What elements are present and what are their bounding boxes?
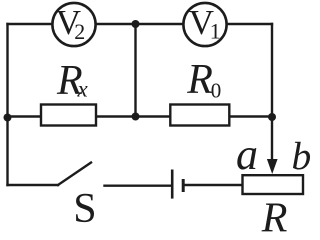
resistor Rx <box>41 105 96 126</box>
svg-text:b: b <box>292 134 312 178</box>
svg-text:2: 2 <box>74 19 85 44</box>
label R0 <box>186 57 221 103</box>
junction dot right <box>268 113 276 121</box>
svg-text:S: S <box>73 186 96 232</box>
wire middle row right <box>229 115 273 117</box>
wire top left segment <box>8 23 54 25</box>
wire bottom left <box>8 184 59 186</box>
label Rx <box>56 58 89 104</box>
svg-text:R: R <box>186 57 213 103</box>
svg-text:R: R <box>261 196 288 235</box>
wire left vertical <box>6 24 8 185</box>
svg-text:x: x <box>77 77 89 102</box>
svg-text:1: 1 <box>210 18 221 43</box>
junction dot left <box>4 114 12 122</box>
wire middle vertical <box>134 24 136 117</box>
voltmeter V1 <box>183 3 226 46</box>
rheostat R <box>243 175 304 194</box>
voltmeter V2 <box>52 3 95 46</box>
wire right vertical <box>271 24 273 162</box>
svg-text:a: a <box>236 130 258 179</box>
wire switch contact to battery <box>105 184 172 186</box>
svg-text:0: 0 <box>211 79 222 103</box>
switch S blade <box>58 163 91 186</box>
wire top right segment <box>227 23 273 25</box>
battery long plate <box>171 170 174 199</box>
junction dot middle <box>132 113 140 121</box>
junction dot top <box>132 20 140 28</box>
battery short plate <box>182 179 185 192</box>
wire middle row left <box>8 115 43 117</box>
wire battery to rheostat <box>185 184 244 186</box>
wiper arrow <box>267 159 278 174</box>
wire middle row center <box>95 115 171 117</box>
resistor R0 <box>170 105 229 126</box>
wire top middle segment <box>96 23 185 25</box>
